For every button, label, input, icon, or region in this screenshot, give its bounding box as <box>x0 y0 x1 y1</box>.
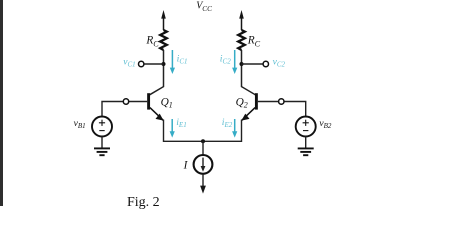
wire: Q1 base to source vB1 <box>102 102 147 117</box>
VCC supply arrow (right) <box>239 10 244 30</box>
source vB1 <box>92 117 112 149</box>
terminal on Q2 base wire <box>279 99 284 104</box>
wire: collector node to vC1 terminal <box>144 63 163 65</box>
node: Q1 collector junction <box>162 62 166 66</box>
wire: collector node to vC2 terminal <box>242 63 263 65</box>
arrow to negative supply <box>200 186 206 194</box>
node: emitter junction <box>201 139 205 143</box>
current arrow iC2 <box>232 50 237 74</box>
transistor Q2 <box>241 93 256 120</box>
VCC supply arrow (left) <box>161 10 166 30</box>
svg-text:Fig. 2: Fig. 2 <box>127 195 160 210</box>
ground (right) <box>298 148 314 155</box>
node: Q2 collector junction <box>240 62 244 66</box>
transistor Q1 <box>149 93 164 120</box>
current arrow iE1 <box>170 119 175 138</box>
terminal vC1 <box>139 61 144 66</box>
wire: left resistor to Q1 collector <box>150 50 164 95</box>
wire: emitter bus <box>164 120 242 142</box>
terminal vC2 <box>263 61 268 66</box>
resistor RC (right) <box>238 30 245 50</box>
wire: Q2 base to source vB2 <box>258 102 306 117</box>
wire: right resistor to Q2 collector <box>242 50 256 95</box>
ground (left) <box>94 148 110 155</box>
current arrow iE2 <box>232 119 237 138</box>
current source I <box>194 141 213 188</box>
terminal on Q1 base wire <box>123 99 128 104</box>
resistor RC (left) <box>160 30 167 50</box>
source vB2 <box>296 117 316 149</box>
current arrow iC1 <box>170 50 175 74</box>
